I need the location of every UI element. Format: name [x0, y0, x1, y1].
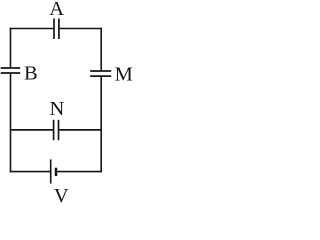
capacitor A (top branch): [54, 19, 59, 40]
label V: [54, 185, 69, 207]
label M: [115, 63, 133, 85]
wire: right vertical lower (capacitor M to bottom corner): [100, 76, 102, 172]
battery V long plate (positive): [50, 159, 52, 183]
wire: middle horizontal right (capacitor N to right wire): [59, 129, 102, 131]
svg-text:N: N: [49, 98, 64, 120]
capacitor B (left branch): [1, 68, 21, 73]
wire: left vertical lower (capacitor B to bottom corner): [10, 73, 12, 172]
svg-text:A: A: [49, 0, 64, 20]
svg-text:V: V: [54, 185, 69, 203]
capacitor N (middle branch): [54, 120, 59, 140]
wire: right vertical upper (top corner to capacitor M): [100, 28, 102, 71]
label N: [49, 98, 64, 120]
wire: top-right horizontal (capacitor A to right corner): [59, 28, 102, 30]
wire: left vertical upper (top corner to capacitor B): [10, 28, 12, 68]
wire: top-left horizontal (left corner to capacitor A): [10, 28, 54, 30]
wire: bottom-right horizontal (battery V to right corner): [56, 171, 102, 173]
label B: [24, 62, 38, 84]
svg-text:M: M: [115, 63, 133, 85]
wire: middle horizontal left (left wire to capacitor N): [10, 129, 54, 131]
battery V short plate (negative): [55, 168, 58, 176]
svg-text:B: B: [24, 62, 38, 84]
capacitor M (right branch): [90, 71, 111, 76]
label A: [49, 0, 64, 20]
wire: bottom-left horizontal (left corner to battery V): [10, 171, 51, 173]
